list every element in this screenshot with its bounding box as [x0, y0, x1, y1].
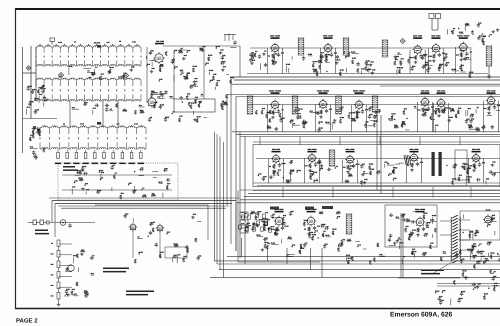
- bus wire: [217, 263, 500, 265]
- capacitor: [402, 218, 406, 221]
- resistor: [482, 41, 484, 45]
- value label: [399, 67, 403, 68]
- value label: [476, 127, 479, 128]
- tube V21 HOR OUTPUT: [415, 217, 425, 228]
- resistor: [37, 89, 39, 93]
- capacitor: [361, 109, 364, 113]
- tube V17 AUDIO OUT: [409, 153, 419, 163]
- value label: [199, 48, 202, 49]
- trimmer lead: [57, 150, 59, 153]
- alternate power supply label: [63, 166, 75, 168]
- capacitor: [317, 60, 321, 63]
- value label: [494, 283, 497, 284]
- resistor: [440, 257, 442, 261]
- wire: [434, 127, 436, 133]
- value label: [395, 59, 398, 60]
- AGC bus wire: [234, 79, 500, 81]
- value label: [303, 122, 307, 123]
- value label: [435, 125, 438, 126]
- wire: [145, 56, 147, 59]
- tube stage label: [270, 35, 280, 36]
- value label: [414, 106, 416, 107]
- resistor: [473, 163, 475, 168]
- resistor: [422, 108, 424, 113]
- plate drop wire: [443, 48, 445, 73]
- power resistor R65: [57, 293, 60, 300]
- value label: [430, 219, 434, 220]
- resistor: [184, 77, 189, 79]
- value label: [159, 79, 162, 80]
- value label: [472, 246, 476, 247]
- junction: [34, 99, 35, 100]
- wire: [308, 55, 312, 57]
- sync label: [267, 219, 270, 220]
- value label: [401, 58, 404, 59]
- value label: [424, 109, 427, 110]
- value label: [423, 252, 427, 253]
- value label: [391, 113, 395, 114]
- value label: [435, 108, 439, 109]
- tube stage label: [472, 149, 480, 150]
- capacitor label: [317, 226, 320, 227]
- value label: [406, 218, 408, 219]
- grid wire: [268, 159, 270, 183]
- tube type label: [472, 151, 481, 153]
- value label: [425, 64, 428, 65]
- capacitor: [278, 163, 281, 167]
- value label: [345, 56, 349, 57]
- wire: [173, 75, 175, 82]
- wire: [71, 189, 73, 195]
- capacitor: [438, 297, 441, 301]
- value label: [147, 64, 150, 65]
- resistor: [320, 59, 322, 63]
- value label: [123, 73, 126, 74]
- value label: [251, 52, 253, 53]
- value label: [139, 252, 143, 253]
- wire: [157, 98, 164, 100]
- RF coil bank L1 channel strip: [36, 46, 141, 67]
- wire: [309, 173, 311, 178]
- capacitor: [28, 102, 31, 106]
- wire: [30, 148, 38, 150]
- value label: [405, 226, 408, 227]
- wire: [226, 73, 229, 75]
- value label: [332, 122, 335, 123]
- resistor: [468, 179, 470, 183]
- resistor: [423, 215, 425, 219]
- value label: [131, 66, 134, 67]
- wire: [426, 65, 433, 67]
- value label: [346, 255, 350, 256]
- capacitor: [269, 176, 273, 179]
- ground: [491, 164, 495, 167]
- value label: [78, 177, 82, 178]
- resistor: [43, 148, 45, 152]
- capacitor: [460, 292, 463, 296]
- wire: [465, 110, 467, 116]
- value label: [474, 287, 476, 288]
- capacitor: [139, 168, 143, 171]
- value label: [412, 249, 415, 250]
- ground: [307, 232, 311, 235]
- oscillator box: [174, 99, 215, 112]
- junction: [462, 232, 463, 233]
- value label: [411, 232, 414, 233]
- width control wire: [437, 285, 500, 287]
- junction: [451, 31, 452, 32]
- wire: [475, 109, 477, 113]
- value label: [273, 171, 276, 172]
- ground: [363, 181, 367, 184]
- wire: [356, 241, 360, 243]
- wire: [482, 261, 484, 264]
- value label: [318, 160, 321, 161]
- resistor: [407, 59, 409, 63]
- junction: [318, 123, 319, 124]
- wire: [72, 108, 79, 110]
- value label: [139, 105, 142, 106]
- tube: [483, 215, 493, 225]
- wire: [73, 257, 75, 263]
- wire: [194, 86, 198, 88]
- value label: [494, 285, 498, 286]
- capacitor: [32, 150, 35, 154]
- value label: [379, 254, 382, 255]
- junction: [154, 221, 155, 222]
- value label: [364, 179, 367, 180]
- capacitor: [489, 171, 493, 174]
- capacitor: [325, 109, 328, 113]
- value label: [483, 35, 486, 36]
- capacitor: [258, 54, 261, 58]
- wire: [214, 87, 216, 90]
- value label: [300, 247, 302, 248]
- resistor: [441, 109, 443, 113]
- tube stage label: [415, 209, 425, 210]
- resistor: [403, 110, 405, 114]
- tube type label: [431, 37, 440, 39]
- tube type label: [308, 151, 317, 153]
- resistor: [316, 72, 318, 76]
- wire: [230, 47, 236, 49]
- capacitor: [317, 128, 320, 132]
- capacitor: [492, 173, 496, 176]
- wire: [460, 52, 462, 57]
- value label: [486, 260, 489, 261]
- value label: [173, 256, 176, 257]
- value label: [265, 237, 268, 238]
- wire: [153, 176, 157, 178]
- value label: [340, 117, 344, 118]
- bend to volume control: [51, 201, 53, 223]
- wire: [87, 71, 95, 73]
- wire: [368, 68, 370, 73]
- right bus wire: [376, 112, 378, 190]
- value label: [459, 298, 463, 299]
- value label: [473, 255, 477, 256]
- capacitor: [373, 116, 377, 119]
- capacitor label: [285, 226, 289, 227]
- resistor: [178, 118, 180, 122]
- antenna feed wire: [30, 46, 32, 119]
- junction: [489, 36, 490, 37]
- junction: [487, 226, 488, 227]
- junction: [319, 170, 320, 171]
- junction: [174, 68, 175, 69]
- value label: [74, 180, 77, 181]
- resistor: [273, 172, 275, 176]
- wire: [162, 93, 167, 95]
- value label: [198, 255, 201, 256]
- value label: [157, 96, 160, 97]
- value label: [267, 125, 269, 126]
- resistor: [351, 256, 353, 260]
- value label: [469, 72, 473, 73]
- value label: [491, 218, 495, 219]
- value label: [80, 170, 84, 171]
- wire: [180, 49, 187, 51]
- value label: [467, 168, 471, 169]
- wire: [310, 112, 317, 114]
- junction: [446, 165, 447, 166]
- junction: [341, 240, 342, 241]
- value label: [158, 182, 162, 183]
- capacitor: [277, 109, 280, 113]
- ground: [324, 59, 328, 62]
- wire: [197, 220, 201, 222]
- test point: [123, 73, 128, 78]
- B+ bus wire: [230, 76, 500, 78]
- value label: [137, 236, 139, 237]
- vertical drop wire: [267, 248, 269, 261]
- resistor label: [51, 285, 54, 286]
- value label: [305, 242, 307, 243]
- value label: [255, 51, 257, 52]
- value label: [151, 91, 154, 92]
- junction: [216, 47, 217, 48]
- value label: [293, 123, 295, 124]
- value label: [152, 68, 155, 69]
- power resistor R63: [57, 272, 60, 279]
- flyback transformer hatched core: [452, 215, 457, 263]
- bus wire: [380, 85, 500, 87]
- value label: [468, 124, 472, 125]
- resistor: [312, 63, 314, 67]
- plate drop wire: [330, 104, 332, 132]
- wire: [293, 124, 300, 126]
- long B+ wire: [52, 200, 236, 202]
- capacitor: [439, 300, 442, 304]
- ground: [369, 64, 373, 67]
- capacitor: [324, 227, 328, 230]
- resistor: [490, 255, 492, 259]
- wire: [396, 218, 400, 220]
- dark component above bank A: [97, 45, 101, 48]
- cathode resistor label: [428, 56, 432, 57]
- wire: [162, 193, 164, 198]
- capacitor: [84, 294, 88, 297]
- capacitor: [65, 289, 68, 293]
- resistor: [266, 245, 268, 249]
- value label: [320, 168, 323, 169]
- value label: [432, 215, 436, 216]
- wire: [151, 62, 153, 67]
- vertical drop wire: [241, 238, 243, 257]
- left bundle bus: [223, 142, 225, 277]
- wire: [285, 66, 287, 72]
- resistor: [392, 169, 394, 173]
- ground: [272, 170, 276, 173]
- capacitor: [271, 214, 274, 218]
- wire: [402, 258, 404, 264]
- value label: [33, 128, 36, 129]
- resistor: [411, 251, 413, 255]
- capacitor label: [329, 109, 332, 110]
- value label: [466, 119, 469, 120]
- resistor: [474, 165, 476, 169]
- resistor: [76, 282, 78, 286]
- capacitor: [166, 178, 170, 181]
- junction: [412, 252, 413, 253]
- inter-row drop wire: [419, 137, 421, 145]
- capacitor: [261, 219, 264, 223]
- value label: [466, 176, 469, 177]
- capacitor: [279, 118, 282, 122]
- junction: [344, 51, 345, 52]
- grid wire: [427, 48, 429, 73]
- resistor: [252, 53, 254, 57]
- wire: [326, 62, 330, 64]
- capacitor label: [318, 162, 322, 163]
- junction: [491, 216, 492, 217]
- capacitor: [317, 161, 321, 164]
- resistor: [178, 51, 183, 53]
- resistor: [369, 260, 371, 264]
- resistor: [391, 115, 393, 119]
- drop wire: [132, 230, 134, 258]
- value label: [351, 51, 355, 52]
- resistor: [79, 179, 84, 181]
- resistor: [443, 109, 445, 113]
- ground: [437, 114, 441, 117]
- value label: [267, 112, 270, 113]
- ground: [491, 30, 495, 33]
- capacitor: [105, 104, 109, 107]
- wire: [497, 254, 500, 256]
- value label: [30, 135, 33, 136]
- trimmer lead: [85, 150, 87, 153]
- value label: [35, 109, 39, 110]
- value label: [459, 32, 463, 33]
- capacitor: [76, 171, 80, 174]
- value label: [291, 160, 293, 161]
- resistor label: [51, 295, 54, 296]
- capacitor: [149, 223, 153, 226]
- junction: [100, 179, 101, 180]
- resistor: [337, 248, 339, 252]
- value label: [313, 69, 317, 70]
- tube stage label: [410, 149, 419, 150]
- value label: [286, 254, 288, 255]
- value label: [403, 256, 405, 257]
- value label: [310, 111, 313, 112]
- trimmer label: [82, 163, 88, 165]
- wire: [75, 174, 80, 176]
- sound box bottom bus: [253, 182, 500, 184]
- wire: [74, 295, 79, 297]
- comb tooth wire: [232, 34, 234, 40]
- comb tooth wire: [228, 34, 230, 41]
- junction: [395, 57, 396, 58]
- resistor: [159, 68, 161, 72]
- capacitor: [149, 51, 152, 55]
- wire: [469, 233, 471, 240]
- coil: [451, 217, 452, 261]
- tube V7 VIDEO OUTPUT: [458, 42, 468, 52]
- right bus wire: [380, 115, 382, 194]
- value label: [295, 107, 298, 108]
- ground: [66, 267, 70, 270]
- resistor: [435, 110, 437, 114]
- wire: [370, 119, 377, 121]
- resistor: [255, 110, 257, 114]
- bus wire: [227, 94, 500, 96]
- value label: [84, 102, 87, 103]
- wire: [291, 56, 293, 59]
- alt supply wire: [62, 189, 172, 191]
- dark component above bank C: [97, 122, 101, 125]
- value label: [85, 183, 88, 184]
- cathode resistor label: [321, 55, 324, 56]
- mixer wire: [173, 52, 175, 99]
- wire: [92, 74, 96, 76]
- resistor: [411, 163, 413, 168]
- value label: [336, 166, 338, 167]
- long wire: [58, 205, 229, 207]
- resistor: [165, 51, 167, 55]
- value label: [412, 251, 416, 252]
- junction: [298, 110, 299, 111]
- wire: [414, 107, 418, 109]
- resistor: [122, 75, 124, 79]
- value label: [292, 244, 295, 245]
- wire: [326, 123, 332, 125]
- wire: [467, 110, 469, 115]
- row2 ground bus: [232, 131, 500, 133]
- capacitor: [416, 162, 419, 166]
- flyback tap wires: [458, 219, 470, 221]
- value label: [494, 172, 496, 173]
- trimmer capacitor C27: [121, 153, 124, 159]
- value label: [180, 70, 183, 71]
- resistor: [159, 91, 161, 95]
- inter-row drop wire: [259, 137, 261, 145]
- audio tube V17: [129, 223, 137, 232]
- capacitor: [472, 255, 476, 258]
- value label: [264, 50, 266, 51]
- vertical drop wire: [321, 248, 323, 277]
- IF transformer T2: [298, 38, 304, 55]
- wire: [271, 244, 278, 246]
- resistor: [303, 222, 305, 226]
- junction: [313, 173, 314, 174]
- value label: [133, 190, 136, 191]
- value label: [290, 170, 294, 171]
- tube V11 SYNC AMP: [420, 97, 430, 107]
- value label: [160, 65, 163, 66]
- mixer plate wire: [163, 45, 240, 47]
